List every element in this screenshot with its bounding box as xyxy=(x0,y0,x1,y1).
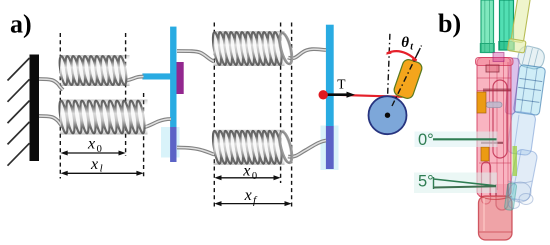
ghost yellow-green sliver xyxy=(513,146,518,176)
svg-text:x: x xyxy=(244,187,252,204)
gray pill detail xyxy=(486,102,502,108)
left slider bar upper part (cyan) xyxy=(170,27,176,128)
pale ghost halo of right slider bar xyxy=(321,126,339,171)
svg-text:0: 0 xyxy=(252,171,257,182)
dimension xl (left set) xyxy=(61,156,144,176)
right slider bar lower part (slate) xyxy=(326,126,334,169)
pill slot 2 xyxy=(482,162,491,204)
pulley center pin xyxy=(385,113,390,118)
svg-text:a): a) xyxy=(10,9,32,38)
dashed reference line left-1 (wall side) xyxy=(59,33,61,179)
tension arrow T xyxy=(324,93,348,96)
svg-text:f: f xyxy=(253,194,258,206)
ghost upper arm segment xyxy=(507,111,537,156)
pale ghost halo of left slider bar xyxy=(161,127,180,158)
halo behind 0deg annotation xyxy=(415,132,498,148)
wire slider to spring K4 xyxy=(177,148,214,155)
pill slot outline xyxy=(493,80,507,158)
5 deg pointer line lower xyxy=(434,186,497,187)
dark band on pink body xyxy=(483,89,511,92)
U slot xyxy=(496,184,508,210)
svg-text:5°: 5° xyxy=(418,173,434,191)
dark edge line under 0deg pointer xyxy=(481,142,503,144)
angle arc arrowhead left xyxy=(386,50,392,54)
svg-text:x: x xyxy=(87,136,95,153)
wire spring K3 to right slider xyxy=(288,49,326,58)
svg-text:l: l xyxy=(100,162,103,174)
spring K3 (upper middle) xyxy=(211,31,294,66)
ghost lower wireframe joints xyxy=(508,181,533,209)
fixed wall xyxy=(30,55,40,162)
svg-text:t: t xyxy=(410,41,414,52)
pink finger body (0 deg pose) xyxy=(477,58,511,197)
lever axis dash-dot line xyxy=(388,46,422,116)
green tube 1 xyxy=(480,0,494,53)
wire spring K2 to slider xyxy=(141,119,171,128)
red attachment dot xyxy=(319,90,328,99)
pink body internal lines xyxy=(477,60,511,195)
dashed reference line mid-2 (x0) xyxy=(280,23,282,184)
svg-text:T: T xyxy=(337,76,346,91)
red angle arc xyxy=(387,51,417,60)
red tendon line xyxy=(323,94,403,96)
5 deg tick xyxy=(433,177,435,189)
wire wall to spring K1 xyxy=(39,79,63,90)
lever arm (orange) xyxy=(393,58,424,100)
lever axis over arm xyxy=(392,46,422,107)
wire wall to spring K2 xyxy=(39,116,63,127)
0 deg pointer line xyxy=(433,138,497,140)
spring K1 (upper left) xyxy=(58,55,129,86)
wall hatching xyxy=(8,58,30,166)
svg-text:θ: θ xyxy=(401,35,409,51)
wire spring K1 to crossbar xyxy=(124,77,144,82)
pink top cap xyxy=(476,58,514,66)
svg-text:0°: 0° xyxy=(418,131,434,149)
right slider bar upper part (cyan) xyxy=(326,25,334,126)
pulley wheel xyxy=(369,96,407,134)
ghost lower arm segment xyxy=(508,148,538,201)
vertical dash-dot reference line xyxy=(387,34,390,115)
left slider bar lower part (slate) xyxy=(170,127,176,162)
horizontal connecting bar (cyan) xyxy=(142,73,176,79)
wire spring K4 to right slider xyxy=(288,141,326,157)
svg-text:b): b) xyxy=(438,9,461,38)
dashed reference line left-2 (x0) xyxy=(125,33,127,156)
spring K4 (lower middle) xyxy=(211,130,294,165)
green tube 2 (teal) xyxy=(499,0,515,50)
svg-text:x: x xyxy=(242,162,250,179)
orange detail 1 xyxy=(477,92,486,113)
halo behind 5deg annotation xyxy=(414,173,497,194)
dashed reference line mid-3 (xf) xyxy=(291,23,293,208)
dimension x0 (middle set) xyxy=(214,162,280,182)
wire slider to spring K3 xyxy=(177,51,214,62)
svg-text:0: 0 xyxy=(97,144,102,155)
salmon fingertip cylinder xyxy=(479,196,513,240)
svg-text:x: x xyxy=(90,156,98,173)
magenta block xyxy=(493,53,504,62)
angle arc arrowhead right xyxy=(412,57,418,61)
yellow-green tube 3 xyxy=(507,0,533,53)
dimension x0 (left set) xyxy=(61,136,126,156)
dimension xf (middle set) xyxy=(214,187,291,206)
small box detail top xyxy=(486,65,499,72)
ghost violet strip under pink edge xyxy=(505,58,519,115)
dashed reference line left-3 (xl) xyxy=(143,93,145,179)
orange detail 2 xyxy=(481,147,489,161)
spring K2 (lower left) xyxy=(58,100,148,135)
5 deg pointer line upper xyxy=(434,179,497,186)
dashed reference line mid-1 xyxy=(213,23,215,208)
purple block on slider xyxy=(177,62,184,94)
ghost cyan neck block xyxy=(513,64,545,115)
ghost head dome (blue-gray) xyxy=(516,44,546,71)
ghost teal sliver over pink bottom xyxy=(504,183,517,211)
